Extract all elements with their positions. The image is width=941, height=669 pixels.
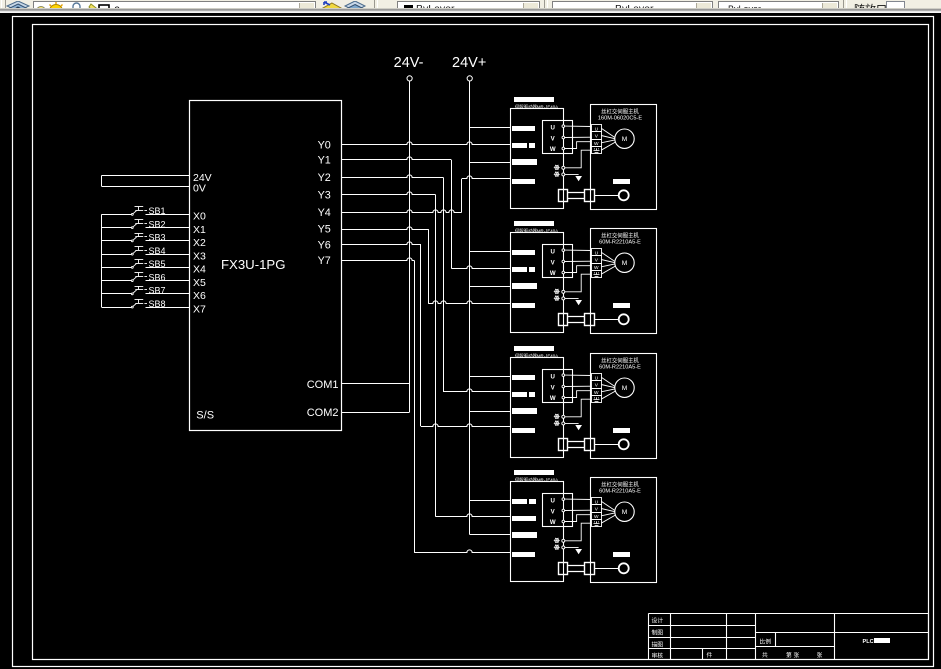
svg-text:X4: X4	[193, 264, 206, 276]
svg-text:审核: 审核	[652, 652, 664, 660]
svg-text:S/S: S/S	[196, 410, 214, 422]
svg-text:V: V	[551, 384, 556, 391]
svg-text:丝杠交伺服主机: 丝杠交伺服主机	[601, 231, 639, 239]
svg-text:U: U	[550, 374, 555, 381]
svg-text:U: U	[550, 498, 555, 505]
svg-text:160M-06020C5-E: 160M-06020C5-E	[598, 115, 642, 121]
svg-text:张: 张	[817, 651, 823, 659]
svg-text:Y4: Y4	[318, 207, 331, 219]
svg-text:W: W	[550, 270, 556, 277]
svg-text:X3: X3	[193, 250, 206, 262]
svg-text:X7: X7	[193, 303, 206, 315]
svg-text:X5: X5	[193, 277, 206, 289]
svg-text:伺服驱动器MR-JE40A: 伺服驱动器MR-JE40A	[515, 228, 558, 235]
svg-text:伺服驱动器MR-JE40A: 伺服驱动器MR-JE40A	[515, 353, 558, 360]
svg-text:描图: 描图	[652, 641, 664, 649]
svg-text:伺服驱动器MR-JE40A: 伺服驱动器MR-JE40A	[515, 104, 558, 111]
svg-text:60M-R2210A5-E: 60M-R2210A5-E	[599, 364, 641, 370]
svg-text:U: U	[550, 249, 555, 256]
svg-text:丝杠交伺服主机: 丝杠交伺服主机	[601, 356, 639, 364]
svg-text:V: V	[551, 135, 556, 142]
svg-text:SB7: SB7	[149, 286, 166, 296]
svg-text:PLC: PLC	[863, 639, 874, 645]
svg-text:伺服驱动器MR-JE40A: 伺服驱动器MR-JE40A	[515, 477, 558, 484]
svg-text:Y7: Y7	[318, 255, 331, 267]
svg-text:共: 共	[762, 651, 768, 659]
svg-text:比例: 比例	[760, 638, 772, 646]
svg-text:V: V	[595, 258, 599, 264]
svg-text:第 张: 第 张	[786, 651, 799, 659]
svg-text:Y3: Y3	[318, 190, 331, 202]
svg-text:W: W	[550, 519, 556, 526]
svg-text:24V-: 24V-	[394, 55, 424, 71]
svg-text:M: M	[622, 260, 628, 267]
svg-text:V: V	[595, 507, 599, 513]
svg-text:X0: X0	[193, 211, 206, 223]
svg-text:COM2: COM2	[307, 407, 339, 419]
svg-text:COM1: COM1	[307, 379, 339, 391]
svg-text:Y1: Y1	[318, 154, 331, 166]
svg-text:丝杠交伺服主机: 丝杠交伺服主机	[601, 480, 639, 488]
svg-text:件: 件	[707, 651, 713, 659]
svg-text:制图: 制图	[652, 629, 664, 637]
svg-text:X6: X6	[193, 290, 206, 302]
svg-text:V: V	[595, 383, 599, 389]
svg-text:W: W	[550, 146, 556, 153]
svg-text:X2: X2	[193, 237, 206, 249]
svg-text:Y6: Y6	[318, 239, 331, 251]
svg-text:丝杠交伺服主机: 丝杠交伺服主机	[601, 107, 639, 115]
svg-text:M: M	[622, 385, 628, 392]
svg-text:设计: 设计	[652, 617, 664, 625]
svg-text:V: V	[551, 259, 556, 266]
svg-text:V: V	[595, 134, 599, 140]
svg-text:24V+: 24V+	[452, 55, 486, 71]
svg-text:U: U	[550, 125, 555, 132]
svg-text:X1: X1	[193, 224, 206, 236]
svg-text:M: M	[622, 509, 628, 516]
svg-text:V: V	[551, 508, 556, 515]
svg-text:W: W	[550, 395, 556, 402]
svg-text:60M-R2210A5-E: 60M-R2210A5-E	[599, 488, 641, 494]
svg-text:FX3U-1PG: FX3U-1PG	[221, 257, 286, 272]
svg-text:Y2: Y2	[318, 172, 331, 184]
svg-text:60M-R2210A5-E: 60M-R2210A5-E	[599, 239, 641, 245]
svg-text:Y0: Y0	[318, 139, 331, 151]
svg-text:SB3: SB3	[149, 233, 166, 243]
svg-text:0V: 0V	[193, 183, 206, 195]
svg-text:Y5: Y5	[318, 224, 331, 236]
svg-text:M: M	[622, 136, 628, 143]
